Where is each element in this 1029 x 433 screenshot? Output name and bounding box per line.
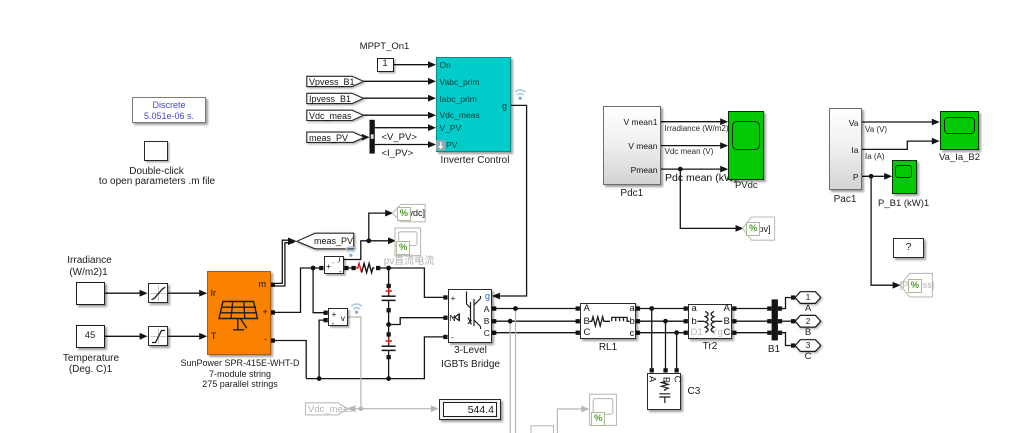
From tag Vpvess_B1 [307,76,364,86]
constant 45 [76,325,105,349]
arrowhead into commented Ppvess goto [893,282,901,289]
arrowhead into PVdc in2 [720,142,728,149]
port square: cap1 top [387,284,391,288]
wire: gray branch A down [515,309,517,433]
gray tag text Vdc_meas [308,404,353,415]
arrowhead into PVdc in1 [720,118,728,125]
wire: Tr2 C to B1 [735,332,770,334]
port square: RL1 a [636,306,640,310]
arrowhead into Vabc_prim [428,78,436,85]
comment badge on Ppv tag [746,222,760,236]
port square: B1 right A [778,306,782,310]
wifi badge at voltage measurement [351,304,361,309]
down arrow badge at I_PV port [436,140,445,151]
port square: bridge A out [492,306,496,310]
wire: phase A tap down to C3 [651,309,653,369]
annotation Temperature [63,353,119,364]
wire: inverter g output down to bridge g [495,105,527,296]
wire: bridge A to RL1 A [494,308,577,310]
port square: PV minus [271,338,275,342]
arrowhead into V_PV [428,124,436,131]
comment badge on scope2 [591,412,605,426]
C3 block [647,373,682,410]
tag text Ipvess_B1 [309,94,351,104]
junction: i output node [366,238,371,243]
junction: C3 phase A tap [649,306,654,311]
Va_Ia_B2 scope [940,111,980,150]
saturation block 1 [148,283,169,304]
arrowhead into saturation1 [140,290,148,297]
capacitor C plates upper [382,296,396,350]
gray tag text pv [759,224,771,234]
commented partial block bottom [531,426,554,433]
wire: B1 to outport 2 [780,320,793,322]
port square: C3 C [675,368,679,372]
wire: PV plus up to current measurement [275,268,321,312]
arrowhead into saturation2 [140,333,148,340]
arrowhead into commented Vdc goto [385,210,393,217]
annotation Double-click [129,166,183,177]
arrowhead left into bridge g [492,293,500,300]
signal label I_PV [382,148,414,159]
port square: bridge B out [492,319,496,323]
wire: Pac1 Va to scope [862,121,937,123]
gray arrowhead into commented scope2 [581,406,589,413]
arrowhead into On [428,61,436,68]
arrowhead into PV T [199,333,207,340]
wire: Vpvess_B1 tag to Vabc_prim [364,80,434,82]
wire: gray voltage measurement output [348,317,361,409]
port square: current meas minus [344,266,348,270]
wire: capacitor chain upper segment [388,268,390,296]
port square: outport 1 [791,295,795,299]
wire: bridge B to RL1 B [494,320,577,322]
arrowhead into bus selector [362,134,370,141]
RL icon in RL1 [590,317,630,326]
B1 caption [768,344,780,355]
wire: current measurement i output [344,241,369,260]
outport 2 hexagon [795,315,821,327]
wire: RL1 a to Tr2 a [638,308,686,310]
port square: Tr2 C [732,331,736,335]
port square: outport 3 [791,343,795,347]
signal label V_PV [382,132,417,143]
commented Goto tag Ppvess [901,273,933,297]
saturation block 2 [148,326,169,347]
port square: B1 right B [778,319,782,323]
Discrete sample time block [132,97,206,123]
junction: Pmean branch [678,167,683,172]
arrowhead into Vdc_meas port [428,112,436,119]
wire: PV minus down to bottom bus [275,341,306,379]
port square: current meas plus [319,266,323,270]
wifi badge at current measurement [346,247,356,252]
wire: DC link top to bridge plus [389,268,446,297]
port square: cap2 bottom [387,355,391,359]
phase labels A B C [805,304,811,315]
junction: C3 phase B tap [663,319,668,324]
Double-click callback block [144,141,168,161]
wire: RL1 b to Tr2 b [638,320,686,322]
RL1 block [580,303,636,339]
wire: i signal to commented scope [369,240,389,242]
gray arrowhead into Vdc_meas goto [347,405,355,412]
port square: bridge N [443,316,447,320]
red polarity plus upper [386,288,392,344]
wire: B1 to outport 1 [780,298,793,309]
P_B1 scope [892,160,917,195]
wire: resistor to DC link top [378,267,388,269]
port square: RL1 A [576,306,580,310]
wire: gray to Vdc_meas goto tag [354,408,361,410]
port square: bridge plus [443,295,447,299]
tag text Vpvess_B1 [309,77,355,87]
wire: Pdc1 Pmean to PVdc scope [661,168,725,170]
port square: PV m [271,283,275,287]
signal label Ia (A) [865,152,885,161]
arrowhead into PVdc in3 [720,166,728,173]
wire: bus selector I_PV out [375,144,433,146]
port square: resistor right [376,266,380,270]
arrowhead into PV Ir [199,290,207,297]
commented Goto tag Ppv [743,217,775,240]
commented scope2 [590,394,617,425]
wire: bottom bus to bridge minus [306,337,445,379]
port square: B1 left C [767,331,771,335]
tag text Vdc_meas [309,111,352,121]
outport 1 hexagon [795,292,821,304]
port square: RL1 C [576,331,580,335]
3-Level IGBTs Bridge block [448,289,492,344]
arrowhead into Va_Ia_B2 in2 [932,138,940,145]
arrowhead into commented scope1 [388,237,396,244]
annotation Irradiance [67,255,111,266]
commented scope pv dc current [395,228,421,256]
wire: voltage measurement minus to bottom bus [319,320,326,379]
port square: Tr2 b [684,319,688,323]
port square: bridge minus [443,335,447,339]
port square: v meas plus [324,311,328,315]
resistor R with red segment [356,263,375,272]
gray caption pv dc current [384,256,435,267]
From tag meas_PV [307,132,365,142]
bus bar B1 [772,299,778,340]
PV array caption [180,358,299,368]
wire: Pdc1 V mean1 to PVdc scope [661,121,725,123]
wire: phase C tap down to C3 [676,333,678,369]
commented Goto tag Vdc_meas gray [306,403,348,415]
wire: Irradiance constant to saturation1 [105,292,145,294]
port square: C3 B [663,368,667,372]
port square: bridge C out [492,331,496,335]
junction: C3 phase C tap [674,330,679,335]
IGBT icon in bridge [453,292,481,330]
wire: capacitor chain middle segment [388,301,390,346]
wifi badge at inverter g [515,90,525,95]
junction: DC link midpoint [386,322,391,327]
signal label Pdc mean (kW) [665,172,737,184]
capacitor C plates lower [382,345,396,347]
arrowhead into I_PV [428,141,436,148]
signal label Vdc mean (V) [665,147,714,156]
port square: outport 2 [791,319,795,323]
junction: phase B gray tap [508,319,513,324]
wire: Vdc_meas tag to Vdc_meas port [364,114,434,116]
port square: RL1 c [636,331,640,335]
gray tag text vdc [409,208,426,218]
outport 3 hexagon [795,340,821,352]
junction: v minus on bottom bus [317,376,322,381]
From tag Vdc_meas [307,110,364,120]
gray junction: display node [359,406,364,411]
PVdc scope [728,111,764,180]
wire: capacitor chain lower segment [388,350,390,378]
comment badge on vdc tag [397,207,411,221]
arrowhead into commented Ppv goto [736,225,744,232]
port square: B1 left A [767,306,771,310]
wire: bus selector V_PV out [375,127,433,129]
Pdc1 subsystem [603,106,661,186]
Inverter Control subsystem [436,57,511,152]
wire: gray wire to commented scope2 [557,409,583,433]
PV array block [207,271,271,355]
arrowhead into Va_Ia_B2 in1 [932,119,940,126]
wire: Pac1 Ia to scope [862,141,937,149]
voltage measurement block [328,308,349,327]
junction: v plus tap [311,266,316,271]
wire: Pdc1 V mean to PVdc scope [661,145,725,147]
port square: C3 A [650,368,654,372]
wire: gray to display [361,408,432,410]
solar panel icon in PV array [219,302,258,331]
Pac1 subsystem [829,108,862,190]
port square: Tr2 a [684,306,688,310]
comment badge on scope1 [396,241,410,255]
commented Goto tag vdc [306,204,933,433]
wire: Pmean branch to commented Ppv goto [680,169,736,228]
junction: DC link top [386,266,391,271]
red polarity plus lower [386,338,392,344]
wire: saturation1 to PV Ir [168,292,204,294]
arrowhead into P_B1 scope [884,173,892,180]
port square: B1 left B [767,319,771,323]
display block 544.4 [439,399,501,420]
signal label Irradiance (W/m2) [665,124,729,133]
port square: Tr2 c [684,331,688,335]
port square: Tr2 B [732,319,736,323]
gray arrowhead into display [431,405,439,412]
tag text meas_PV [309,133,348,143]
bus selector bar [370,120,375,154]
wire: 45 constant to saturation2 [105,335,145,337]
port square: resistor left [352,266,356,270]
wire: meas_PV tag to bus selector [365,136,369,138]
From tag Ipvess_B1 [307,93,364,103]
outport numbers [806,293,811,303]
gray tag text Ppvess [900,280,935,290]
transformer coils icon in Tr2 [698,312,723,333]
port square: v meas minus [324,318,328,322]
tag text goto meas_PV [314,236,353,246]
port square: RL1 B [576,319,580,323]
port square: Tr2 A [732,306,736,310]
wire: DC midpoint to bridge N [389,318,446,325]
signal label Va (V) [865,125,887,134]
wire: constant 1 to On port [394,64,434,66]
wire: i signal up to commented Vdc goto [369,213,386,241]
wire: RL1 c to Tr2 c [638,332,686,334]
wire: gray branch B down [509,321,511,433]
junction: phase A gray tap [513,306,518,311]
wire: current meas minus to resistor [346,267,353,269]
wire: Tr2 A to B1 [735,308,770,310]
constant Irradiance [76,282,105,306]
arrowhead into Iabc_prim [428,95,436,102]
wire: saturation2 to PV T [168,335,204,337]
port square: B1 right C [778,331,782,335]
wire: Tr2 B to B1 [735,320,770,322]
port square: PV plus [271,310,275,314]
junction: DC link bottom on bus [386,376,391,381]
Goto tag meas_PV near PV array [297,233,354,249]
port square: cap1 bottom [387,308,391,312]
comment badge on Ppvess tag [908,279,922,293]
wire: PV m bus double line to meas_PV goto [275,240,294,283]
wire: B1 to outport 3 [780,333,793,346]
port square: cap2 top [387,332,391,336]
wire: bridge C to RL1 C [494,332,577,334]
wire: branch to voltage measurement plus [313,268,326,313]
Tr2 block [688,304,732,339]
MPPT_On1 annotation [360,42,410,53]
wire: P branch down to commented Ppvess goto [871,176,893,285]
constant MPPT 1 [377,58,394,73]
wire: phase B tap down to C3 [665,321,667,368]
arrowhead into meas_PV goto [288,238,297,246]
unknown ? block [893,238,924,258]
wire: Pac1 P to P_B1 scope [862,175,889,177]
current measurement block [324,256,345,275]
junction: Pac1 P branch [869,174,874,179]
port square: RL1 b [636,319,640,323]
RC icon in C3 [659,381,670,404]
wire: Ipvess_B1 tag to Iabc_prim [364,97,434,99]
